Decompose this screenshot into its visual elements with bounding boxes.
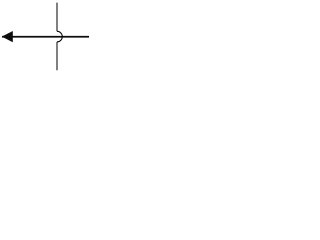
vertical wire (lower segment)	[56, 42, 58, 70]
vertical wire (upper segment)	[56, 3, 58, 32]
wire: horizontal net with arrow	[2, 36, 89, 38]
arrowhead (left-pointing, filled)	[2, 31, 13, 42]
hop arc (crossover, no connection)	[57, 31, 62, 42]
